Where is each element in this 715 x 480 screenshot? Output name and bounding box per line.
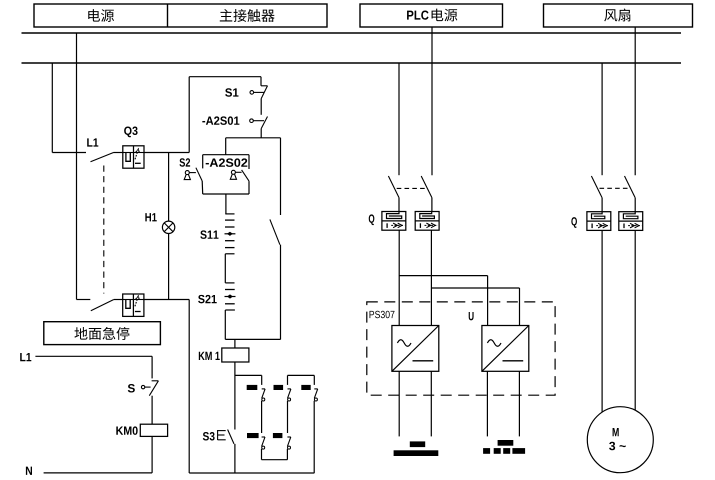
label text M — [613, 428, 619, 436]
label text U — [469, 312, 474, 320]
wire KM0 to N — [151, 436, 153, 473]
selector switch S21 — [225, 289, 235, 291]
wire branch1 elbow — [235, 374, 262, 376]
label text PLC — [407, 11, 429, 20]
PS307 diagonal — [392, 326, 439, 372]
label text S2 — [179, 158, 190, 166]
breaker lower trip arrow glyph — [133, 299, 144, 301]
wire lower breaker output — [144, 299, 189, 301]
switch blade lower (main isolator pole 2) — [91, 300, 114, 311]
label text 地面急停 — [74, 327, 129, 340]
U dc bar — [503, 360, 524, 362]
label text H1 — [145, 213, 156, 221]
bus line L2 — [22, 62, 682, 64]
switch S (NC pushbutton) — [152, 380, 159, 382]
breaker Q3 trip arrow glyph — [134, 152, 145, 154]
wire PLC pole2 down — [430, 230, 432, 325]
breaker Q PLC pole1 thermal glyph — [387, 212, 402, 219]
motor M 3~ — [587, 407, 653, 473]
wire right branch lower — [280, 245, 282, 340]
contact KM interlock r2c2 bar — [273, 433, 283, 438]
breaker Q fan pole2 thermal glyph — [623, 212, 638, 219]
breaker Q fan pole1 thermal glyph — [592, 212, 605, 219]
wire A2S01 to junction — [260, 129, 262, 138]
wire control rail down — [188, 300, 190, 474]
wire elbow to lower switch — [77, 299, 91, 301]
label box -A2S02 — [203, 154, 249, 156]
label text S3 — [203, 432, 215, 441]
header box 风扇 — [544, 4, 693, 27]
label text S11 — [200, 230, 218, 238]
breaker box Q3 — [123, 146, 144, 168]
switch -A2S01 (NC) — [261, 117, 267, 129]
label text 电源 — [88, 9, 114, 22]
label text KM0 — [116, 426, 137, 434]
wire vertical from bus1 x77 — [76, 33, 78, 300]
wire down to S — [151, 356, 153, 378]
header box 电源/主接触器 — [34, 4, 327, 27]
label text A2S02 — [206, 158, 248, 166]
wire PLC pole2 — [431, 198, 433, 212]
wire control top elbow — [189, 76, 261, 78]
breaker lower minus bar — [135, 311, 141, 313]
circuit breaker Q fan pole2 — [619, 212, 643, 231]
switch blade fan pole1 — [591, 176, 602, 198]
contact KM interlock r1c2 blade — [288, 388, 291, 390]
wire tap1 to U — [399, 275, 487, 277]
label text Q3 — [124, 127, 137, 138]
wire PS307 out1 — [398, 371, 400, 436]
switch S1 (NC) — [260, 77, 262, 86]
switch -A2S02 blade — [242, 170, 249, 181]
breaker Q PLC pole2 magnetic I>> glyph — [419, 223, 421, 228]
wire U out2 — [518, 371, 520, 436]
wire blade to lower breaker — [114, 299, 123, 301]
wire fan pole2 down — [634, 230, 636, 410]
PS307 dc bar — [413, 360, 434, 362]
wire PS307 out2 — [430, 371, 432, 436]
switch S2 blade — [196, 168, 202, 181]
wire junction left drop — [225, 138, 227, 155]
breaker Q fan pole2 magnetic I>> glyph — [623, 224, 625, 229]
ground PE (PS307) — [410, 441, 425, 447]
wire PLC pole1 from bus2 — [398, 63, 400, 175]
label text Qfan — [571, 217, 577, 228]
breaker Q fan pole1 magnetic I>> glyph — [591, 224, 593, 229]
bus line L1 top — [22, 32, 682, 34]
contact KM interlock r1c1 blade — [262, 388, 265, 390]
switch -A2S02 actuator — [231, 170, 235, 174]
contact KM interlock r1c3 blade — [314, 388, 317, 390]
mechanical link dashed — [103, 166, 105, 294]
switch blade PLC pole2 — [421, 176, 432, 198]
label text 风扇 — [604, 8, 630, 21]
switch blade PLC pole1 — [388, 176, 399, 198]
switch S3 actuator — [217, 430, 219, 440]
ground functional (U) — [498, 440, 514, 446]
wire group2 top elbow — [288, 374, 315, 376]
wire to KM1 — [234, 339, 236, 348]
wire branch2 mid — [287, 401, 289, 433]
wire L1 feeder — [35, 355, 152, 357]
wire lamp branch upper — [168, 153, 170, 222]
label text QPLC — [369, 214, 375, 225]
breaker Q PLC pole2 thermal glyph — [420, 212, 435, 219]
wire N — [44, 472, 153, 474]
label text S21 — [198, 295, 217, 303]
circuit breaker Q PLC pole1 — [382, 212, 406, 231]
breaker Q3 U (undervoltage release) glyph — [123, 152, 134, 154]
breaker lower U (undervoltage release) glyph — [123, 299, 134, 301]
coil KM1 — [222, 348, 249, 362]
circuit breaker Q PLC pole2 — [415, 212, 439, 231]
power supply PS307 box — [392, 326, 439, 372]
wire branch3 down — [313, 401, 315, 473]
wire control bottom bar — [225, 338, 280, 340]
wire blade to Q3 — [114, 152, 123, 154]
switch right branch blade — [270, 219, 280, 244]
wire PLC pole1 down — [398, 230, 400, 325]
wire S1 to A2S01 — [260, 99, 262, 115]
label text KM1 — [199, 352, 220, 360]
label text L1l — [20, 353, 31, 361]
wire control bottom — [189, 472, 314, 474]
wire lamp branch lower — [168, 233, 170, 299]
contact KM interlock r1c2 bar — [274, 385, 284, 390]
label text N — [26, 467, 32, 475]
dashed module boundary PS307 — [367, 302, 555, 395]
S21 position pointer — [225, 296, 236, 298]
switch blade upper (main isolator pole 1) — [91, 153, 114, 162]
label text A2S01 — [202, 116, 239, 124]
circuit breaker Q fan pole1 — [587, 212, 611, 231]
U sine — [487, 340, 501, 347]
wire S21 bottom elbow — [225, 309, 235, 311]
label box 地面急停 — [44, 322, 161, 345]
label text S — [128, 384, 135, 392]
wire A2S02 bottom loop — [201, 181, 204, 194]
dashed link PLC breaker — [397, 187, 427, 189]
breaker Q PLC pole1 magnetic I>> glyph — [386, 223, 388, 228]
breaker Q3 minus bar — [135, 162, 141, 164]
wire S11-S21 bracket — [225, 253, 234, 255]
label text L1u — [87, 138, 98, 146]
dashed link fan breaker — [600, 187, 631, 189]
label text PS307 — [370, 311, 395, 318]
breaker box lower — [123, 294, 144, 316]
switch blade fan pole2 — [625, 176, 636, 198]
wire vertical from bus2 x52 — [51, 63, 53, 153]
wire Q3 output — [144, 152, 189, 154]
contact KM interlock r2c1 blade — [262, 436, 265, 438]
wire KM1 down — [234, 362, 236, 430]
wire junction bar — [226, 137, 281, 139]
wire horizontal to upper switch — [52, 152, 86, 154]
wire S to KM0 — [151, 396, 153, 425]
selector switch S11 — [225, 213, 234, 215]
label text 电源(PLC) — [432, 9, 458, 22]
wire fan pole1 from bus2 — [601, 63, 603, 175]
wire fan pole2 from box — [634, 27, 636, 175]
contact KM interlock r1c1 bar — [247, 385, 258, 390]
wire tap2 to U — [431, 287, 519, 289]
contact KM interlock r1c3 bar — [301, 385, 310, 390]
label text 3~ — [609, 442, 626, 451]
wire row2 U — [261, 449, 263, 460]
coil KM0 — [140, 424, 167, 436]
wire branch1 mid — [261, 401, 263, 433]
switch S3 blade — [228, 430, 234, 444]
contact KM interlock r2c1 bar — [247, 433, 259, 438]
switch S2 actuator — [185, 171, 189, 175]
wire fan pole2 — [634, 198, 636, 212]
label text S1 — [225, 88, 238, 96]
wire right branch upper — [280, 138, 282, 215]
wire fan pole1 — [601, 198, 603, 212]
power supply U box — [482, 326, 529, 372]
contact KM interlock r2c2 blade — [287, 436, 290, 438]
lamp H1 — [162, 221, 174, 233]
wire fan pole1 down — [601, 230, 603, 412]
U diagonal — [482, 326, 529, 372]
wire U out1 — [486, 371, 488, 436]
header box PLC电源 — [360, 4, 503, 27]
wire PLC pole2 from box — [431, 27, 433, 175]
wire S3 down — [234, 444, 236, 473]
S11 position pointer — [225, 233, 236, 235]
label text 主接触器 — [220, 9, 275, 22]
wire PLC pole1 — [398, 198, 400, 212]
PS307 sine — [397, 340, 411, 347]
